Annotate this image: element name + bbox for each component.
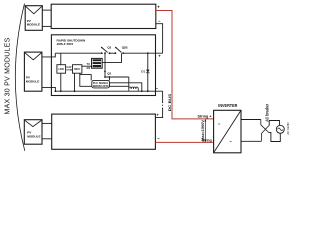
svg-text:MCU: MCU — [74, 67, 80, 71]
svg-text:Q2B: Q2B — [122, 46, 128, 50]
svg-text:−: − — [157, 136, 160, 141]
wire: series link box2-minus to box3-plus with dotted omission — [155, 91, 162, 117]
svg-text:MODULE: MODULE — [26, 79, 39, 83]
svg-text:LDO: LDO — [58, 67, 63, 71]
dimension arrow: max string voltage — [201, 119, 206, 142]
switch Q2B — [115, 46, 128, 55]
wire: transmitter to positive bus — [102, 53, 121, 62]
svg-text:D1: D1 — [141, 70, 145, 74]
rapid shutdown box 1 — [51, 4, 156, 28]
svg-text:MODULE: MODULE — [27, 134, 40, 138]
wire: demodulator out upper — [110, 83, 142, 91]
wire: Q2B to box2 + output — [123, 52, 163, 54]
wire: series link box1-minus to box2-plus — [156, 24, 163, 54]
svg-text:−: − — [155, 86, 158, 91]
wire: PV3 minus to box3 — [42, 138, 52, 140]
regulator LDO — [57, 65, 66, 74]
microcontroller MCU — [73, 65, 82, 74]
svg-text:RX: RX — [87, 66, 91, 70]
rapid shutdown box 3 — [52, 114, 156, 149]
wire: PV1 minus to box1 — [42, 25, 51, 27]
wire: Q3 to coil branch — [105, 76, 129, 78]
svg-text:3.3V: 3.3V — [66, 65, 72, 69]
wire: DC bus positive (red) — [156, 11, 214, 119]
svg-text:MODULE: MODULE — [27, 23, 40, 27]
svg-text:String +: String + — [198, 114, 212, 118]
rapid shutdown box 2 (JMS-F detail) — [51, 35, 155, 96]
wire: junction down to demodulator — [109, 77, 111, 80]
wire: String minus (red) — [155, 141, 213, 143]
svg-text:+: + — [157, 4, 160, 9]
wire: inverter AC out bottom — [241, 140, 261, 142]
PV module PV2 — [24, 52, 42, 91]
svg-text:~: ~ — [229, 139, 232, 145]
wire: breaker to grid bottom — [269, 132, 281, 141]
wire: breaker to grid top — [269, 121, 279, 126]
PV module PV1 — [25, 6, 42, 31]
transistor node Q3 — [104, 53, 111, 77]
diode D1 — [141, 52, 149, 92]
svg-text:TX: TX — [87, 62, 91, 66]
wire: MCU bottom to demodulator left — [80, 73, 92, 86]
svg-text:DEMODULATOR: DEMODULATOR — [93, 84, 109, 88]
inverter U1 — [214, 103, 241, 153]
wire: LDO ground — [60, 73, 62, 91]
brace: PV module group bracket — [15, 4, 24, 151]
breaker CB1 — [261, 120, 269, 142]
inductor coil — [129, 87, 138, 91]
svg-text:=: = — [218, 121, 221, 126]
demodulator block — [92, 80, 110, 88]
transmitter module box — [92, 58, 103, 68]
wire: branch down to coil — [128, 77, 130, 89]
wire: demodulator out lower — [110, 85, 129, 87]
wire: MCU ground — [74, 73, 76, 91]
AC grid source G1 — [276, 125, 284, 133]
svg-text:−: − — [158, 19, 161, 24]
svg-text:AC GRID: AC GRID — [286, 121, 290, 134]
switch Q2 — [101, 46, 112, 55]
label: 3.3V rail with arrow — [66, 65, 72, 71]
svg-text:INVERTER: INVERTER — [218, 103, 238, 108]
PV module PV3 — [24, 120, 42, 145]
svg-text:MAX 30 PV MODULES: MAX 30 PV MODULES — [5, 37, 12, 114]
wire: inverter AC out top — [241, 119, 261, 121]
wire: PV3 plus to box3 — [42, 122, 52, 124]
svg-text:DC BUS: DC BUS — [167, 94, 172, 112]
wire: box2 internal positive bus — [55, 52, 102, 54]
svg-text:Q2: Q2 — [107, 46, 111, 50]
svg-text:Q3: Q3 — [107, 71, 111, 75]
wire: PV1 plus to box1 — [42, 9, 51, 11]
wire: PV2 plus to box2 (jog up to bus) — [42, 53, 55, 57]
svg-text:Max=1500V: Max=1500V — [201, 119, 205, 141]
wire: box2 internal negative bus — [55, 90, 162, 92]
svg-text:JMS-F BOX: JMS-F BOX — [57, 42, 75, 46]
wire: between Q2 and Q2B — [110, 52, 116, 54]
wire: bus to LDO — [60, 53, 62, 64]
wire: PV2 minus to box2 (jog down to return bus) — [42, 87, 56, 91]
svg-text:AC breaker: AC breaker — [265, 104, 270, 122]
